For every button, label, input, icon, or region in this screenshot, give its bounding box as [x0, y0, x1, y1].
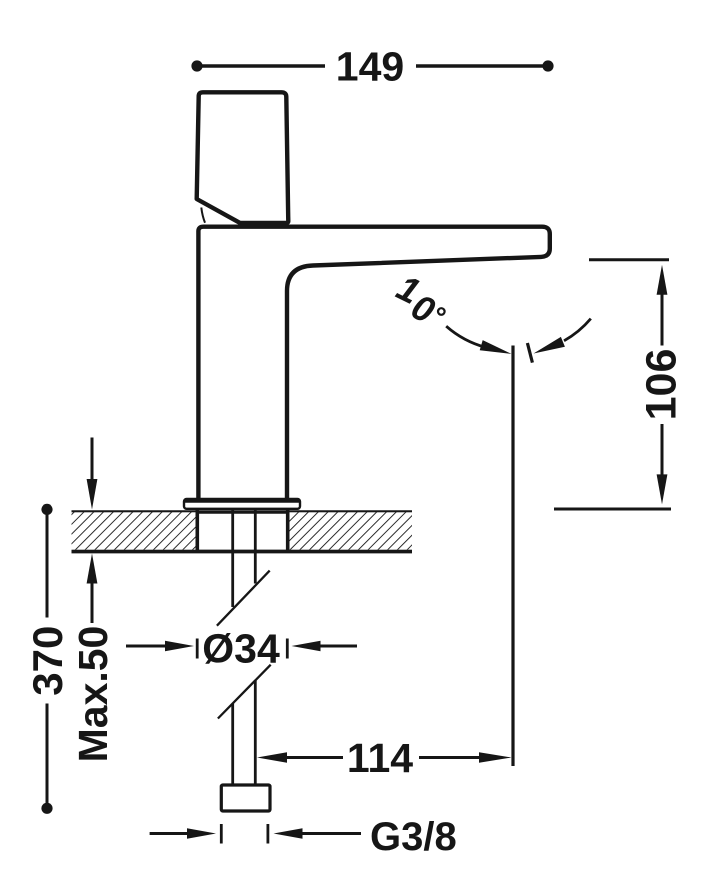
dimension Max.50 upper arrow line	[91, 438, 94, 482]
dimension 149 right end dot	[542, 60, 553, 71]
faucet body and spout outline	[198, 227, 549, 502]
dimension Ø34 right tick	[286, 639, 289, 659]
dimension 106 lower line	[661, 424, 664, 476]
G3/8 fitting nut	[221, 785, 270, 811]
svg-text:106: 106	[638, 349, 686, 421]
dimension 106 upper line	[661, 293, 664, 346]
pipe break mark lower	[218, 665, 271, 719]
countertop right hatched slab	[289, 512, 412, 549]
dimension 370 lower line	[46, 704, 49, 809]
base flange thick top	[185, 498, 299, 503]
dimension 370 upper dot	[41, 504, 52, 515]
dimension 106 lower arrowhead	[657, 474, 668, 504]
svg-text:370: 370	[24, 626, 71, 696]
dimension 106 top extension line	[589, 258, 669, 261]
dimension 114 left line	[285, 756, 343, 759]
svg-text:G3/8: G3/8	[370, 815, 457, 859]
dimension 106 bottom extension line	[554, 508, 671, 511]
dimension Ø34 right arrowhead	[292, 641, 321, 652]
dimension G3/8 left arrow line	[150, 832, 190, 835]
dimension Max.50 lower arrowhead	[87, 554, 98, 584]
countertop top edge	[72, 510, 413, 514]
dimension Max.50 lower arrow line	[91, 581, 94, 623]
dimension Ø34 left tick	[196, 639, 199, 659]
svg-text:Max.50: Max.50	[70, 626, 116, 763]
pipe break mark upper	[217, 571, 270, 626]
dimension 149 line right segment	[416, 64, 548, 67]
angle 10° arc right arrowhead	[534, 337, 565, 354]
dimension 370 upper line	[46, 509, 49, 617]
dimension 149 left end dot	[191, 60, 202, 71]
dimension Ø34 left arrowhead	[165, 641, 194, 652]
dimension G3/8 right arrow line	[300, 832, 361, 835]
dimension Ø34 left arrow line	[126, 645, 168, 648]
dimension Max.50 upper arrowhead	[87, 479, 98, 510]
dimension 149 line left segment	[197, 64, 325, 67]
angle 10° arc left arrowhead	[480, 340, 512, 354]
handle pivot gap line	[201, 208, 205, 223]
faucet handle lever	[197, 92, 289, 223]
angle 10° label degree ring	[438, 308, 445, 315]
countertop bottom edge	[72, 550, 413, 554]
dimension G3/8 right arrowhead	[274, 828, 303, 839]
dimension G3/8 right tick	[266, 824, 269, 844]
dimension 106 upper arrowhead	[657, 265, 668, 295]
shank tube left line lower segment	[231, 704, 234, 787]
base flange	[184, 499, 300, 509]
dimension G3/8 left arrowhead	[187, 828, 216, 839]
dimension Ø34 right arrow line	[318, 645, 357, 648]
dimension 370 lower dot	[41, 803, 52, 814]
dimension G3/8 left tick	[220, 824, 223, 844]
angle 10° arc right segment	[564, 319, 591, 341]
spout outlet axis line	[511, 346, 514, 767]
angle 10° arc left segment	[446, 326, 486, 347]
svg-text:Ø34: Ø34	[202, 626, 280, 672]
shank tube right line lower segment	[254, 681, 257, 787]
dimension 114 left arrowhead	[257, 752, 287, 763]
dimension 114 right arrowhead	[479, 752, 512, 763]
countertop left hatched slab	[72, 512, 197, 549]
shank tube left line upper segment	[231, 509, 234, 607]
shank tube right line upper segment	[254, 509, 257, 584]
countertop hole left edge	[196, 510, 200, 551]
angle 10° tick mark	[527, 343, 532, 363]
svg-text:149: 149	[336, 44, 404, 90]
svg-text:114: 114	[347, 735, 413, 781]
countertop hole right edge	[286, 510, 290, 551]
dimension 114 right line	[419, 756, 481, 759]
